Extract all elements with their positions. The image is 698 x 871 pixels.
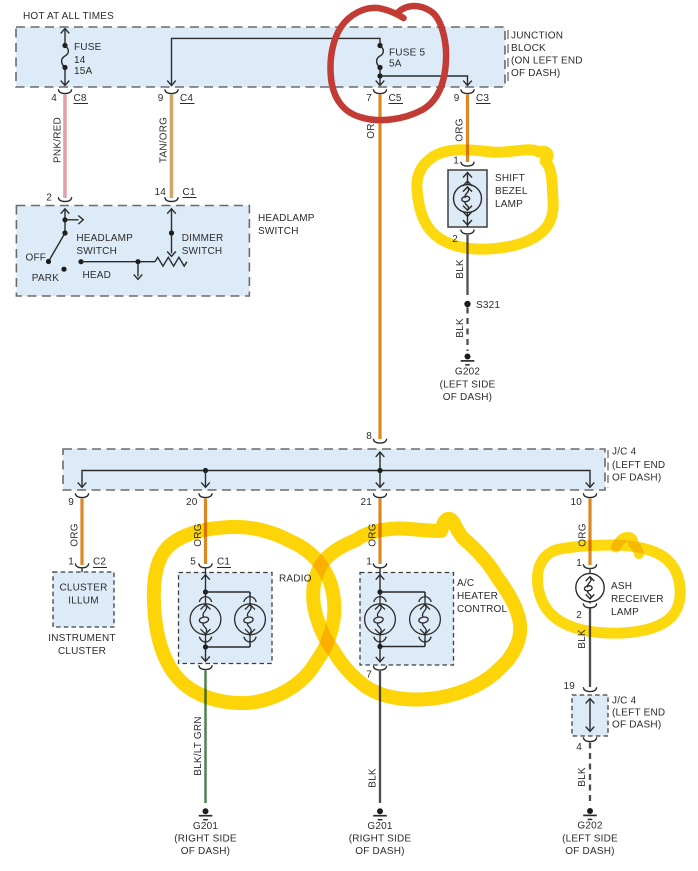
svg-text:FUSE 5: FUSE 5 [389,48,425,59]
svg-text:C5: C5 [389,93,402,104]
svg-text:7: 7 [366,93,372,104]
svg-text:1: 1 [68,557,74,568]
svg-text:SHIFT: SHIFT [495,173,525,184]
svg-text:J/C 4: J/C 4 [612,447,637,458]
svg-text:J/C 4: J/C 4 [612,696,637,707]
svg-text:CLUSTER: CLUSTER [59,583,107,594]
svg-text:G202: G202 [577,821,603,832]
svg-text:ILLUM: ILLUM [68,596,98,607]
svg-text:14: 14 [154,187,166,198]
svg-text:LAMP: LAMP [611,607,639,618]
svg-text:DIMMER: DIMMER [182,233,224,244]
svg-text:(LEFT END: (LEFT END [612,708,665,719]
svg-text:1: 1 [366,557,372,568]
svg-text:OF DASH): OF DASH) [612,720,661,731]
svg-text:BLK: BLK [455,259,466,279]
svg-text:21: 21 [360,497,372,508]
svg-text:SWITCH: SWITCH [258,226,299,237]
svg-text:4: 4 [576,742,582,753]
svg-text:HEAD: HEAD [83,270,112,281]
svg-text:CLUSTER: CLUSTER [58,646,106,657]
svg-text:C1: C1 [217,557,230,568]
svg-text:BEZEL: BEZEL [495,186,528,197]
svg-text:A/C: A/C [457,578,474,589]
svg-text:8: 8 [366,431,372,442]
svg-text:(LEFT END: (LEFT END [612,460,665,471]
svg-text:G202: G202 [455,367,481,378]
svg-text:G201: G201 [367,821,393,832]
svg-text:OF DASH): OF DASH) [443,392,492,403]
svg-text:RADIO: RADIO [279,574,312,585]
svg-text:2: 2 [576,610,582,621]
svg-text:BLK: BLK [455,318,466,338]
svg-text:BLK/LT GRN: BLK/LT GRN [193,716,204,775]
svg-text:OF DASH): OF DASH) [511,68,560,79]
svg-text:HEATER: HEATER [457,591,498,602]
svg-text:5: 5 [190,557,196,568]
svg-text:9: 9 [68,497,74,508]
svg-text:CONTROL: CONTROL [457,604,508,615]
svg-text:C3: C3 [476,93,489,104]
svg-text:19: 19 [563,681,575,692]
svg-text:(RIGHT SIDE: (RIGHT SIDE [349,834,412,845]
svg-text:ASH: ASH [611,581,632,592]
svg-text:PNK/RED: PNK/RED [53,117,64,163]
svg-text:S321: S321 [476,300,500,311]
svg-text:INSTRUMENT: INSTRUMENT [48,633,116,644]
svg-text:ORG: ORG [70,523,81,546]
svg-text:(LEFT SIDE: (LEFT SIDE [440,380,496,391]
svg-text:OF DASH): OF DASH) [181,846,230,857]
svg-text:FUSE: FUSE [74,42,102,53]
svg-text:OF DASH): OF DASH) [355,846,404,857]
svg-text:OR: OR [366,123,377,138]
svg-text:G201: G201 [193,821,219,832]
svg-text:BLK: BLK [577,767,588,787]
svg-text:(ON LEFT END: (ON LEFT END [511,56,583,67]
svg-text:BLOCK: BLOCK [511,43,546,54]
svg-text:15A: 15A [74,66,93,77]
svg-text:1: 1 [453,156,459,167]
svg-text:C2: C2 [93,557,106,568]
svg-text:10: 10 [570,497,582,508]
svg-text:OF DASH): OF DASH) [565,846,614,857]
svg-text:2: 2 [46,193,52,204]
svg-text:4: 4 [51,93,57,104]
svg-text:HEADLAMP: HEADLAMP [258,213,315,224]
svg-text:OF DASH): OF DASH) [612,473,661,484]
svg-text:LAMP: LAMP [495,199,523,210]
svg-text:BLK: BLK [368,768,379,788]
svg-text:SWITCH: SWITCH [182,246,223,257]
svg-text:TAN/ORG: TAN/ORG [159,117,170,163]
svg-text:14: 14 [74,55,86,66]
svg-text:C1: C1 [183,187,196,198]
svg-text:RECEIVER: RECEIVER [611,594,664,605]
svg-text:C4: C4 [180,93,193,104]
svg-text:C8: C8 [74,93,87,104]
svg-text:OFF: OFF [26,253,47,264]
svg-text:9: 9 [454,93,460,104]
svg-text:HEADLAMP: HEADLAMP [76,233,133,244]
svg-text:HOT AT ALL TIMES: HOT AT ALL TIMES [23,11,114,22]
svg-text:1: 1 [576,558,582,569]
svg-text:SWITCH: SWITCH [76,246,117,257]
svg-text:5A: 5A [389,59,402,70]
svg-text:(LEFT SIDE: (LEFT SIDE [562,834,618,845]
svg-text:JUNCTION: JUNCTION [511,31,563,42]
svg-text:20: 20 [186,497,198,508]
svg-text:PARK: PARK [32,273,59,284]
svg-text:ORG: ORG [455,118,466,141]
svg-text:(RIGHT SIDE: (RIGHT SIDE [174,834,237,845]
svg-text:9: 9 [158,93,164,104]
